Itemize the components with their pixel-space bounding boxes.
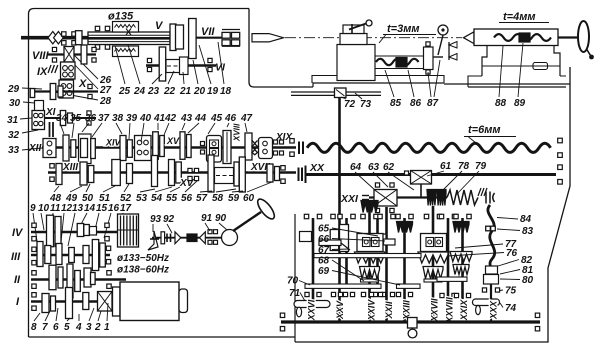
clutch sleeve VI <box>166 60 186 73</box>
leaders 34-47 <box>60 123 247 142</box>
svg-text:68: 68 <box>318 256 330 267</box>
labels 91 90 <box>201 213 227 224</box>
frame bottom border left box <box>29 336 296 338</box>
label 71 <box>289 288 305 301</box>
svg-text:5: 5 <box>64 322 70 333</box>
gear X left small <box>30 89 35 98</box>
vertical shaft XXII <box>385 207 388 322</box>
gear III f tall <box>92 240 98 271</box>
svg-text:XXIV: XXIV <box>367 299 377 322</box>
svg-text:4: 4 <box>75 322 82 333</box>
gear 48 <box>56 164 62 185</box>
leader 27 <box>74 64 98 89</box>
svg-text:1: 1 <box>104 322 110 333</box>
label 31 <box>7 115 32 126</box>
apron vertical shaft XXV <box>338 97 341 322</box>
svg-text:12: 12 <box>61 203 73 214</box>
gear 59 <box>275 167 280 181</box>
gear II b <box>58 267 63 288</box>
gear 41 <box>153 132 159 160</box>
label 87 <box>427 60 440 109</box>
frame divider between gearboxes <box>294 214 296 342</box>
svg-text:90: 90 <box>215 213 227 224</box>
gear III c <box>56 244 62 265</box>
shaft VI <box>146 64 216 66</box>
svg-text:VII: VII <box>201 26 215 38</box>
skirt XXIV <box>355 252 385 263</box>
svg-text:ø135: ø135 <box>108 11 134 23</box>
svg-text:3: 3 <box>86 322 92 333</box>
clutch frame XIX <box>259 138 273 159</box>
rotated label XXIII <box>402 300 412 321</box>
label t=6mm <box>464 124 516 143</box>
svg-text:16: 16 <box>108 203 120 214</box>
gear 50 <box>88 166 94 183</box>
shift rail left <box>305 284 381 288</box>
svg-text:21: 21 <box>179 86 192 97</box>
svg-text:XXII: XXII <box>384 301 394 320</box>
svg-text:ø133−50Hz: ø133−50Hz <box>117 253 169 264</box>
coupling xbox I-motor <box>98 292 113 312</box>
svg-text:18: 18 <box>220 86 232 97</box>
gear 49 <box>80 162 87 185</box>
cardan bar <box>161 232 165 244</box>
svg-text:27: 27 <box>99 85 112 96</box>
labels 9-17 row <box>30 203 132 214</box>
gear 34 <box>63 135 69 161</box>
motor shaft cap <box>113 287 121 316</box>
svg-text:VIII: VIII <box>32 50 49 62</box>
gear 65 box <box>377 234 386 242</box>
svg-text:22: 22 <box>163 86 176 97</box>
worm box 61 <box>405 171 432 198</box>
bearing IV right <box>105 223 109 241</box>
leader 23 <box>152 74 162 84</box>
svg-text:24: 24 <box>133 86 146 97</box>
svg-text:XX: XX <box>309 162 325 174</box>
heart XXIX <box>453 265 469 275</box>
svg-text:46: 46 <box>224 113 237 124</box>
shaft XXI <box>369 196 447 198</box>
gear on spindle flange <box>176 25 184 49</box>
gear 52c <box>169 160 175 186</box>
feed rod right bearing <box>558 165 563 184</box>
carriage handle <box>349 20 372 33</box>
svg-text:XIV: XIV <box>105 138 122 148</box>
clutch bevel pair on shaft V <box>48 32 63 44</box>
svg-text:79: 79 <box>475 161 487 172</box>
shaft I <box>31 300 117 302</box>
hatch marks IX <box>48 65 58 73</box>
worm block IX lower <box>59 80 74 98</box>
label 85 <box>385 70 402 109</box>
svg-text:15: 15 <box>96 203 108 214</box>
bearing XI right <box>87 111 91 125</box>
bearing pair XXX <box>482 288 499 292</box>
S-wavy selector rod <box>488 205 495 281</box>
gear 35 <box>71 140 76 158</box>
svg-text:IV: IV <box>12 227 24 239</box>
svg-text:XII: XII <box>28 143 41 154</box>
label 81 <box>500 265 534 276</box>
shift rail mid <box>397 284 421 288</box>
label freq2 <box>117 265 169 276</box>
vertical shaft XXIII <box>403 218 406 322</box>
label 30 <box>9 98 35 109</box>
svg-text:78: 78 <box>458 161 470 172</box>
gear VIII tall <box>81 45 87 64</box>
label 77 <box>455 239 517 250</box>
bearing II right <box>107 271 111 289</box>
gear II c tall <box>67 264 73 298</box>
svg-text:56: 56 <box>181 193 193 204</box>
svg-text:92: 92 <box>163 214 175 225</box>
gear 52d <box>176 162 182 183</box>
lever knob <box>255 197 277 222</box>
bearing squares XV <box>188 168 199 180</box>
gear XI b <box>68 113 73 123</box>
gear 52b <box>152 156 158 187</box>
svg-text:88: 88 <box>495 98 507 109</box>
label XVII <box>250 162 270 173</box>
svg-text:71: 71 <box>289 288 301 299</box>
rack lines <box>291 92 381 95</box>
gear III g <box>100 243 106 267</box>
skirt XXVII <box>418 252 448 263</box>
svg-text:XXVIII: XXVIII <box>445 297 455 324</box>
svg-text:41: 41 <box>153 113 166 124</box>
skirt XXIX <box>450 252 472 262</box>
bearing III right <box>106 246 110 264</box>
bearing box XII left <box>43 139 56 158</box>
svg-text:XXVI: XXVI <box>307 299 317 321</box>
leaders 1-8 <box>34 303 108 321</box>
rotated label XXX <box>489 300 499 320</box>
rotated label XXVII <box>430 298 440 323</box>
svg-text:IX: IX <box>37 66 48 78</box>
svg-text:36: 36 <box>85 113 97 124</box>
label X <box>78 78 87 90</box>
clutch sleeve 54 <box>215 168 234 184</box>
label 86 <box>408 70 422 109</box>
svg-text:35: 35 <box>70 113 82 124</box>
cone pulley block <box>118 214 139 247</box>
gear 57 <box>239 157 245 192</box>
label freq1 <box>117 253 169 264</box>
bearing pair VIII <box>52 47 56 62</box>
gear III a <box>37 242 43 267</box>
svg-text:69: 69 <box>318 266 330 277</box>
svg-text:25: 25 <box>118 86 131 97</box>
cross screw rails <box>375 56 423 69</box>
bearing pair spindle left <box>95 26 109 49</box>
svg-text:III: III <box>11 251 21 263</box>
pulley D135 top half <box>113 22 139 33</box>
shaft X <box>31 90 98 92</box>
leader 26 <box>72 53 98 79</box>
gear 37 <box>91 139 96 159</box>
top bearing pair at x=462.5 <box>454 214 471 218</box>
label 29 <box>7 84 42 95</box>
svg-text:39: 39 <box>126 113 138 124</box>
labels 65-69 <box>318 224 330 278</box>
vertical shaft XXIX <box>461 218 464 299</box>
gear 42 <box>160 136 165 157</box>
label XII <box>28 143 41 154</box>
svg-text:VI: VI <box>215 62 226 74</box>
bearing VIII right <box>92 47 96 62</box>
clutch xbox VIII <box>64 47 74 63</box>
gear box VI <box>180 57 189 75</box>
top bearing pair at x=346.5 <box>338 214 355 218</box>
spring 79 zigzag <box>447 188 487 205</box>
label 89 <box>514 43 526 109</box>
capsule 74 <box>473 299 500 315</box>
gear 46 tall <box>223 131 231 164</box>
svg-text:67: 67 <box>318 245 330 256</box>
svg-text:ø138−60Hz: ø138−60Hz <box>117 265 169 276</box>
svg-text:83: 83 <box>522 226 534 237</box>
svg-text:54: 54 <box>151 193 163 204</box>
svg-text:9: 9 <box>30 203 36 214</box>
frame right border <box>548 67 570 342</box>
gear 58 <box>267 164 273 182</box>
frame bottom border right box <box>295 341 549 343</box>
svg-text:63: 63 <box>368 162 380 173</box>
gear I c tall <box>66 288 73 319</box>
labels 48-60 row <box>49 193 255 204</box>
gear 53 tall <box>208 155 214 192</box>
cross-feed bracket <box>424 42 434 74</box>
gear IV c <box>77 224 84 237</box>
svg-text:87: 87 <box>427 98 439 109</box>
gear III d <box>69 248 75 263</box>
svg-text:84: 84 <box>520 214 532 225</box>
bottom bearing pair x=339.5 <box>331 292 347 296</box>
top bearing pair at x=313 <box>304 214 321 218</box>
jaw clutch XIX teeth <box>252 141 258 156</box>
svg-text:62: 62 <box>383 162 395 173</box>
svg-text:33: 33 <box>8 145 20 156</box>
svg-text:59: 59 <box>228 193 240 204</box>
bottom shaft <box>281 320 540 323</box>
spindle flange <box>170 24 183 51</box>
labels 93 92 <box>150 214 175 225</box>
rotated label XXIX <box>459 299 469 322</box>
clip 83 <box>486 226 496 231</box>
yoke XXIV <box>357 234 383 252</box>
svg-text:XXV: XXV <box>335 300 345 320</box>
leaders 61 78 79 <box>427 171 479 196</box>
cross screw t=3mm wavy <box>376 59 419 65</box>
svg-text:61: 61 <box>440 161 452 172</box>
svg-text:47: 47 <box>240 113 253 124</box>
shaft V input (main spindle line) <box>21 36 92 40</box>
rotated label XXV <box>335 300 345 320</box>
gear I a <box>42 294 49 313</box>
leadscrew coupling ticks <box>299 142 303 155</box>
svg-text:53: 53 <box>136 193 148 204</box>
svg-text:85: 85 <box>390 98 402 109</box>
svg-text:42: 42 <box>164 113 177 124</box>
label 33 <box>8 145 42 156</box>
shaft XIII <box>48 171 296 173</box>
gearbox xbox XXI <box>374 183 397 213</box>
leadscrew t=6mm wavy <box>307 143 551 152</box>
cross screw nut <box>396 58 407 68</box>
svg-text:93: 93 <box>150 214 162 225</box>
leaders 91 90 <box>205 223 227 231</box>
svg-text:70: 70 <box>287 276 299 287</box>
svg-text:43: 43 <box>180 113 193 124</box>
bearing pair shaft V <box>62 32 77 45</box>
gear 51 <box>112 160 121 186</box>
spindle sleeve body <box>88 32 170 45</box>
svg-text:XVIII: XVIII <box>233 123 242 142</box>
bearing XIII left <box>50 164 54 182</box>
svg-text:73: 73 <box>360 99 372 110</box>
vertical shaft XXVII <box>432 206 435 322</box>
gear small left wall <box>300 232 312 242</box>
gear VII tall <box>189 19 197 59</box>
gear IV d <box>84 225 90 236</box>
top bearing pair at x=386.5 <box>378 214 395 218</box>
svg-text:65: 65 <box>318 224 330 235</box>
tumbler block X <box>32 111 45 130</box>
gear 38 <box>120 136 126 161</box>
shaft II <box>31 278 126 280</box>
label 70 <box>287 276 310 287</box>
rack pinion box <box>335 88 347 98</box>
label 75 <box>500 286 517 297</box>
centerline dash-dot <box>285 37 462 39</box>
bottom bearing pair x=448 <box>440 293 456 297</box>
cardan splines <box>167 234 171 243</box>
svg-text:34: 34 <box>56 113 68 124</box>
frame bed line right <box>444 83 570 85</box>
gear II d <box>75 271 81 292</box>
label V <box>155 20 164 32</box>
gear on shaft V left <box>76 31 83 45</box>
svg-text:32: 32 <box>8 130 20 141</box>
tailstock screw nut <box>519 33 530 42</box>
bearing XII right <box>290 139 294 157</box>
label I <box>16 296 20 308</box>
rotated label XXIV <box>367 299 377 322</box>
label XXI <box>340 193 369 205</box>
handwheel circle 90 <box>222 230 238 246</box>
crown top XXIV <box>361 201 378 213</box>
svg-text:2: 2 <box>94 322 101 333</box>
label 72 <box>341 97 356 110</box>
gear III b <box>45 246 51 264</box>
cross-feed crank <box>433 25 448 57</box>
label XVI <box>166 136 182 146</box>
top bearing XXV <box>331 214 335 218</box>
shaft III <box>31 254 110 256</box>
gear IV a tall <box>47 215 54 247</box>
tailstock center tip <box>464 32 475 44</box>
clutch clips <box>486 192 495 204</box>
yoke XXVII <box>421 234 447 252</box>
cardan cone left <box>200 232 206 244</box>
shaft IV <box>31 231 118 233</box>
cardan mid sleeve <box>187 234 197 242</box>
svg-text:40: 40 <box>139 113 152 124</box>
svg-text:10: 10 <box>38 203 50 214</box>
top bearing pair at x=433 <box>424 214 441 218</box>
svg-text:44: 44 <box>194 113 207 124</box>
vertical shaft XXIV2 <box>376 218 379 288</box>
cardan flag left <box>148 231 159 250</box>
bottom bearing pair x=404.5 <box>396 292 412 296</box>
tailstock screw t=4mm wavy <box>494 34 551 41</box>
label VII <box>201 26 215 38</box>
bearing II left <box>32 271 36 289</box>
bottom bearing pair x=369.5 <box>361 292 377 296</box>
workpiece bullet <box>252 34 284 42</box>
carriage cross slide <box>340 25 367 45</box>
label III <box>11 251 21 263</box>
gear III e <box>83 246 89 264</box>
top bearing pair at x=448 <box>439 214 456 218</box>
labels 18-25 row <box>118 86 232 97</box>
svg-text:45: 45 <box>210 113 223 124</box>
label 32 <box>8 130 38 141</box>
vertical shaft XXIV <box>368 206 371 322</box>
frame outer border left+top <box>29 9 250 338</box>
svg-text:74: 74 <box>505 303 517 314</box>
label 74 <box>500 303 517 314</box>
label 83 <box>497 226 534 237</box>
bottom bearing pair x=462.5 <box>454 293 470 297</box>
label VI <box>215 62 226 74</box>
svg-text:23: 23 <box>147 86 160 97</box>
svg-text:II: II <box>14 274 21 286</box>
svg-text:X: X <box>78 78 87 90</box>
feed rod XX <box>306 173 556 176</box>
oiler pendant <box>408 318 418 338</box>
bearing I left <box>32 293 36 311</box>
leader 24 <box>128 45 140 84</box>
bottom bearing pair x=386.5 <box>378 292 394 296</box>
frame carriage saddle base line <box>313 83 444 87</box>
svg-text:37: 37 <box>98 113 110 124</box>
svg-text:XXVII: XXVII <box>430 298 440 323</box>
labels 34-47 row <box>56 113 253 124</box>
label II <box>14 274 21 286</box>
labels 26 27 28 <box>99 75 112 107</box>
gear frame 45 <box>201 136 222 163</box>
svg-text:11: 11 <box>50 203 61 214</box>
bearing XIII right <box>281 166 285 184</box>
svg-text:t=3мм: t=3мм <box>387 23 419 35</box>
gear IV b tall <box>55 217 61 247</box>
svg-text:XXX: XXX <box>489 300 499 320</box>
cluster A gears <box>330 225 348 252</box>
svg-text:t=6мм: t=6мм <box>468 124 500 136</box>
vertical shaft XXVIII <box>447 218 450 300</box>
svg-text:75: 75 <box>505 286 517 297</box>
svg-text:30: 30 <box>9 98 21 109</box>
labels 64 63 62 <box>350 162 395 173</box>
label XIV <box>105 138 122 148</box>
tailstock handwheel <box>558 21 594 59</box>
bottom shaft right bearing <box>535 313 539 331</box>
label 80 <box>500 275 534 286</box>
clutch 82 81 80 stack <box>484 266 499 322</box>
chuck jaws <box>222 30 240 47</box>
